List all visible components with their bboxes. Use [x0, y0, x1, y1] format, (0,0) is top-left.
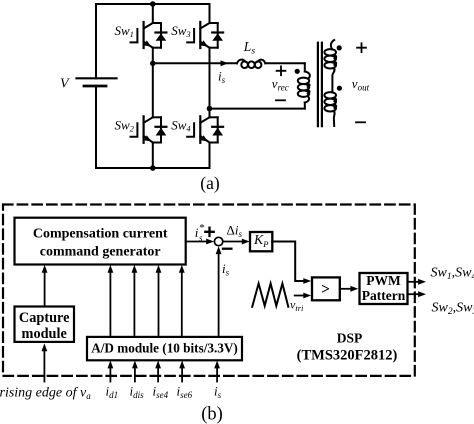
- transformer core: [317, 43, 319, 127]
- wire is feedback to summer: [218, 254, 220, 337]
- arrows A/D to compensation: [109, 272, 111, 337]
- diode D4: [212, 117, 223, 142]
- node left mid: [150, 61, 156, 67]
- secondary dot lower: [337, 86, 342, 91]
- wire left branch upper: [95, 4, 97, 78]
- svg-text:Sw1,Sw4: Sw1,Sw4: [431, 265, 474, 282]
- svg-text:command generator: command generator: [40, 244, 161, 259]
- minus vrec: [276, 99, 285, 101]
- svg-text:Sw4: Sw4: [171, 118, 191, 134]
- node top: [150, 1, 156, 7]
- input arrows bottom: [43, 351, 45, 382]
- svg-text:Pattern: Pattern: [362, 288, 406, 303]
- wire comparator to PWM: [340, 288, 351, 290]
- box compensation current command generator: [15, 218, 186, 265]
- minus vout: [356, 121, 365, 123]
- svg-text:Compensation current: Compensation current: [33, 226, 168, 241]
- wire vtri to comparator: [295, 295, 304, 297]
- wire is: [153, 62, 237, 64]
- svg-text:DSP: DSP: [337, 331, 363, 346]
- box Kp: [250, 232, 272, 251]
- wire Kp to comparator: [272, 242, 303, 282]
- svg-text:idis: idis: [130, 384, 145, 401]
- PWM output arrows: [408, 281, 419, 283]
- svg-text:A/D module (10 bits/3.3V): A/D module (10 bits/3.3V): [91, 341, 238, 356]
- wire summer to Kp: [223, 241, 243, 243]
- box comparator: [312, 277, 340, 300]
- svg-text:vrec: vrec: [272, 76, 289, 93]
- wire to primary: [265, 62, 305, 64]
- diode D1: [156, 23, 167, 48]
- transistor Sw2: [131, 116, 162, 143]
- wire right leg: [209, 4, 211, 168]
- arrow capture to compensation: [44, 272, 46, 306]
- plus summer: [205, 228, 213, 236]
- transformer secondary lower: [324, 92, 336, 126]
- svg-text:Sw1: Sw1: [115, 23, 134, 39]
- svg-text:PWM: PWM: [366, 273, 401, 288]
- triangle wave vtri: [252, 284, 288, 307]
- wire left branch lower: [95, 86, 97, 168]
- svg-text:ise4: ise4: [153, 384, 169, 401]
- svg-text:(TMS320F2812): (TMS320F2812): [297, 348, 398, 364]
- box PWM pattern: [360, 273, 408, 304]
- wire left leg: [152, 4, 154, 168]
- transistor Sw4: [187, 116, 218, 143]
- dashed DSP boundary: [3, 205, 415, 376]
- transistor Sw3: [187, 22, 218, 48]
- svg-text:vout: vout: [352, 76, 370, 93]
- svg-text:ise6: ise6: [177, 384, 193, 401]
- svg-text:Sw2: Sw2: [115, 118, 135, 134]
- svg-text:vtri: vtri: [290, 298, 304, 314]
- wire compensation out to summer: [186, 241, 207, 243]
- minus summer: [223, 248, 231, 250]
- secondary dot upper: [337, 45, 342, 50]
- svg-text:s: s: [199, 233, 203, 243]
- node bottom: [150, 165, 156, 171]
- wire node to primary bottom: [210, 108, 305, 110]
- svg-text:Ls: Ls: [243, 39, 256, 57]
- transistor Sw1: [131, 22, 162, 48]
- box A/D module: [87, 337, 242, 360]
- svg-text:id1: id1: [106, 384, 119, 401]
- svg-text:Sw2,Sw3: Sw2,Sw3: [432, 301, 474, 318]
- diode D3: [212, 23, 223, 48]
- svg-text:(a): (a): [200, 173, 220, 193]
- plus vrec: [277, 66, 286, 75]
- battery V plates: [77, 77, 117, 79]
- svg-text:>: >: [321, 281, 330, 298]
- svg-text:Δis: Δis: [227, 223, 243, 240]
- svg-text:KP: KP: [253, 232, 268, 249]
- svg-text:is: is: [222, 261, 230, 278]
- svg-text:Sw3: Sw3: [171, 23, 190, 39]
- svg-text:is: is: [214, 384, 222, 401]
- svg-text:Capture: Capture: [19, 310, 70, 326]
- top rail: [96, 3, 210, 5]
- svg-text:module: module: [22, 326, 67, 342]
- svg-text:V: V: [60, 77, 70, 92]
- transformer primary: [298, 63, 310, 108]
- diode D2: [156, 117, 167, 142]
- summer circle: [214, 237, 222, 245]
- transformer secondary upper: [324, 40, 336, 92]
- box capture module: [15, 307, 75, 342]
- inductor Ls: [237, 60, 265, 68]
- plus vout: [357, 43, 366, 52]
- svg-text:(b): (b): [201, 405, 223, 424]
- svg-text:rising edge of va: rising edge of va: [0, 386, 91, 402]
- primary polarity dot: [295, 69, 300, 74]
- svg-text:is: is: [218, 69, 226, 86]
- node right mid: [207, 106, 213, 112]
- bottom rail: [96, 167, 210, 169]
